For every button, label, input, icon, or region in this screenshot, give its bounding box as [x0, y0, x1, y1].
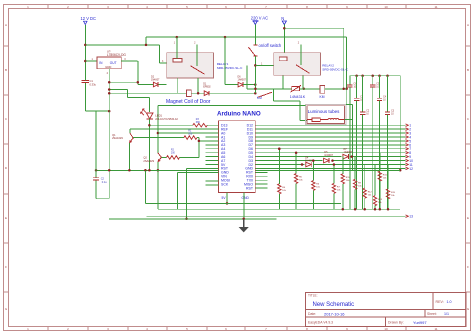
wire KM line segment 3 [325, 88, 347, 90]
wire KM line segment 2 [300, 88, 320, 90]
wire over title horizontal [158, 104, 306, 106]
resistor R4 [278, 184, 281, 194]
svg-text:12 V DC: 12 V DC [81, 16, 97, 21]
wire gnd horizontal y82.2 [109, 81, 138, 83]
wire nano right short stubs [255, 171, 267, 173]
junction cap right column bottom [399, 169, 402, 172]
wire R5 column top [295, 153, 297, 174]
wire to tubes horizontal [274, 100, 301, 102]
junction GND column at bottom rail [185, 218, 188, 221]
net flags 1-12 [406, 124, 409, 127]
relay RELAY1 coil [173, 58, 182, 62]
wire nano MOSI SCK stubs [206, 180, 219, 182]
op-amp U2 Arduino NANO body [219, 121, 256, 193]
svg-text:C2: C2 [101, 176, 105, 180]
title block drawnby divider [385, 317, 387, 326]
frame column tick marks [47, 5, 49, 9]
junction cap rail x387.5 [386, 74, 389, 77]
svg-text:on/off switch: on/off switch [259, 43, 282, 48]
wire 12V branch top [85, 44, 159, 46]
resistor R6 [312, 181, 315, 191]
svg-text:A: A [5, 23, 7, 27]
wire LED column bottom [148, 118, 150, 170]
relay RELAY2 bottom pin a [282, 75, 284, 89]
svg-text:1N4007: 1N4007 [324, 154, 333, 157]
wire KM riser [246, 65, 248, 88]
wire N vertical to KM line [343, 28, 345, 89]
junction top rail relay1 pin [176, 36, 179, 39]
capacitor C3 [385, 111, 390, 113]
relay RELAY2 body [274, 53, 321, 76]
wire D6 anode [225, 84, 238, 86]
svg-text:Sheet:: Sheet: [427, 312, 437, 316]
wire to relay2 left pin [255, 64, 273, 66]
wire R15 column top [387, 165, 389, 189]
svg-text:200: 200 [171, 152, 176, 155]
wire cap bank top rail [350, 75, 400, 77]
relay RELAY1 bottom pin b [197, 78, 199, 93]
junction diode D5 row [331, 159, 334, 162]
relay RELAY2 coil [279, 57, 287, 61]
svg-text:Yuri997: Yuri997 [413, 320, 427, 325]
wire cap C3 column top [387, 76, 389, 112]
wire Q1 base east [133, 137, 184, 139]
wire R12 column bottom [364, 198, 366, 209]
power flag 220V symbol [252, 20, 258, 22]
wire jog to nano A2 [199, 140, 219, 142]
relay RELAY2 bottom pin b [302, 75, 304, 89]
svg-text:12: 12 [409, 167, 413, 171]
junction rail170 x96.0 [95, 169, 98, 172]
junction ground at rail [242, 218, 245, 221]
relay RELAY2 top pin 2 [300, 44, 302, 65]
capacitor C5 [370, 84, 375, 86]
relay RELAY1 top pin 2 [196, 44, 198, 66]
svg-text:B: B [5, 68, 7, 72]
wire 220V below switch [254, 56, 256, 93]
wire rail left riser 96 lower [95, 180, 97, 199]
capacitor C7 [354, 97, 359, 99]
svg-text:New Schematic: New Schematic [313, 302, 355, 308]
relay RELAY1 contact blade [191, 66, 205, 75]
relay RELAY2 contact blade [296, 65, 310, 74]
wire N east branch [284, 27, 343, 29]
wire rail y170.3 left [96, 169, 219, 171]
svg-text:10: 10 [384, 5, 388, 9]
junction 220V relay2 branch [254, 64, 256, 67]
junction rail170 x145.4 [144, 169, 147, 172]
title block rev divider [432, 293, 434, 310]
wire rail y203.4 [145, 202, 341, 204]
junction A0 row at column [157, 132, 160, 135]
ground symbol [243, 219, 245, 227]
junction N wire at KM line [342, 88, 345, 91]
svg-text:2SA1029: 2SA1029 [143, 159, 154, 163]
diode D1 symbol [204, 91, 209, 96]
junction rail170 x129.4 [128, 169, 131, 172]
resistor R7 [332, 183, 335, 193]
svg-text:1N4007: 1N4007 [344, 151, 353, 154]
wire R5 column bottom [295, 184, 297, 210]
svg-text:2SA1029: 2SA1029 [112, 136, 123, 140]
wire rail y170.3 right [255, 169, 400, 171]
svg-text:11: 11 [434, 327, 437, 331]
wire cap C3 column bottom [387, 114, 389, 209]
wire D13 row west segment [149, 124, 192, 126]
junction at 137.8,82.2 [137, 81, 140, 84]
junction LED column D13 row [148, 124, 151, 127]
svg-text:14N431K: 14N431K [290, 95, 306, 99]
svg-text:Arduino NANO: Arduino NANO [217, 111, 261, 118]
wire top rail corner down [346, 37, 348, 89]
svg-text:0.1u: 0.1u [102, 180, 108, 184]
svg-text:GND: GND [242, 196, 250, 200]
svg-text:Q1: Q1 [112, 133, 116, 137]
wire D2 anode [138, 84, 154, 86]
wire top rail y37.1 [146, 36, 347, 38]
junction top rail D6 column [224, 36, 227, 39]
junction cap rail x372.7 [371, 74, 374, 77]
wire LED feed y97.6 [128, 97, 150, 99]
wire rail left riser 145.4 [144, 170, 146, 203]
switch on/off blade [248, 47, 255, 56]
wire branch to relay1 left pin [160, 62, 167, 64]
junction diode D7 row [350, 155, 353, 158]
resistor R2 [167, 156, 180, 160]
wire R1 jog vertical [198, 138, 200, 158]
junction cap rail x356.6 [355, 74, 358, 77]
wire GND column down [186, 168, 188, 218]
diode D4 symbol [306, 162, 311, 167]
wire cap C7 column top [356, 76, 358, 99]
svg-text:EPB02: EPB02 [203, 85, 211, 88]
wire branch corner down [159, 45, 161, 63]
wire rail left riser 96 upper [95, 111, 97, 178]
wire y89.5 [109, 89, 127, 91]
wire R6 column top [312, 161, 314, 181]
junction R6 top [312, 159, 315, 162]
diode D2 symbol [153, 82, 158, 87]
wire rail y209.2 [158, 208, 400, 210]
switch on/off terminal ticks [253, 44, 257, 46]
wire LED feed riser [127, 90, 129, 98]
svg-text:RST: RST [246, 186, 254, 190]
luminous tubes inner box [307, 106, 345, 124]
junction at 109.2,82.2 [108, 81, 111, 84]
wire nano 5V bottom pin [226, 193, 228, 204]
junction rail170 x109.2 [108, 169, 111, 172]
wire over title left riser upper [157, 105, 159, 152]
wire R9 column bottom [354, 189, 356, 209]
junction 12V at y61 [84, 60, 87, 63]
junction rail209 x364.7 [363, 208, 366, 211]
resistor R3 [193, 123, 208, 127]
luminous tubes outer box [306, 104, 347, 124]
power flag 12V symbol [83, 20, 88, 22]
wire Q2 base east [161, 156, 166, 158]
junction rail drop at branch [145, 44, 148, 47]
svg-text:200: 200 [188, 133, 193, 136]
wire R2 east [180, 156, 199, 158]
voltage regulator U1 body [97, 57, 121, 69]
wire 220V down to switch [254, 25, 256, 45]
svg-text:220 V AC: 220 V AC [251, 16, 268, 21]
wire C1 gap top [84, 79, 86, 81]
svg-text:680: 680 [196, 121, 201, 124]
junction rail209 x342.8 [342, 208, 345, 211]
wire OUT down [137, 61, 139, 85]
junction jog at A2 wire [198, 140, 201, 143]
wire over title left riser lower [157, 162, 159, 209]
junction R7 top [333, 163, 336, 166]
resistor R1 [184, 136, 197, 140]
junction cap rail x362.6 [361, 74, 364, 77]
wire R16 column top [379, 153, 381, 171]
wire tubes left riser [299, 101, 301, 121]
wire tubes right column [352, 105, 354, 171]
wire cap C2 column bottom [362, 114, 364, 209]
wire to regulator IN [85, 60, 97, 62]
wire R6 column bottom [312, 191, 314, 210]
wire coil right [192, 92, 205, 94]
junction 109.2,89.5 [108, 88, 111, 91]
wire R15 column bottom [387, 199, 389, 209]
wire cap C5 column bottom [372, 87, 374, 209]
wire R12 column top [364, 165, 366, 189]
wire KM line segment 1 [247, 88, 292, 90]
svg-text:204-10UYC/S530-A3: 204-10UYC/S530-A3 [155, 118, 178, 121]
svg-text:13: 13 [409, 215, 413, 219]
svg-text:1N4007: 1N4007 [238, 79, 247, 82]
svg-text:F: F [467, 265, 469, 269]
wire cap C7 column bottom [356, 100, 358, 209]
svg-text:Luminous tubes: Luminous tubes [308, 109, 341, 114]
relay RELAY1 body [167, 53, 214, 78]
transistor Q2 symbol [158, 153, 161, 158]
svg-text:C1: C1 [90, 79, 94, 83]
resistor R5 [294, 174, 297, 184]
resistor R13 [373, 196, 376, 206]
junction D1 wire at 220V [254, 92, 256, 95]
svg-text:0.33u: 0.33u [90, 83, 97, 87]
capacitor C2 [360, 111, 365, 113]
wire R4 column top [278, 149, 280, 184]
junction 109.2 y111.1 [108, 110, 111, 113]
wire R4 column bottom [278, 194, 280, 209]
junction diode D4 row [301, 163, 304, 166]
wire 12V vertical [84, 25, 86, 80]
title block row line 2 [306, 316, 467, 318]
wire nano right bus rows 1-12 [255, 124, 405, 126]
wire GND row west [187, 167, 219, 169]
svg-text:2017-10-16: 2017-10-16 [324, 311, 345, 316]
wire rail y216.2 [147, 215, 406, 217]
diode D6 symbol [238, 82, 243, 87]
title block sheet divider [424, 310, 426, 318]
wire R13 column top [374, 165, 376, 196]
title block outline [306, 293, 467, 327]
wire R16 column bottom [379, 181, 381, 209]
svg-text:11: 11 [434, 5, 437, 9]
wire R7 column top [333, 165, 335, 184]
relay RELAY1 bottom pin a [176, 78, 178, 93]
svg-text:L7806CV-DG: L7806CV-DG [107, 53, 126, 57]
wire cap bank right column [399, 76, 401, 171]
wire R13 column bottom [374, 206, 376, 210]
transistor Q1 symbol [130, 133, 133, 138]
svg-text:REV:: REV: [436, 300, 444, 304]
wire nano left pin stubs A2-RST [206, 136, 219, 138]
wire cap C2 column top [362, 76, 364, 112]
switch KM blade [258, 92, 272, 97]
resistor R16 [378, 171, 381, 181]
wire VIN column down [177, 172, 179, 209]
capacitor C2 [93, 177, 99, 179]
svg-text:LED1: LED1 [155, 113, 162, 117]
junction D6 at 220V line [254, 83, 256, 86]
svg-text:Magnet Coil of Door: Magnet Coil of Door [166, 99, 211, 105]
wire REF column down into Q1 [129, 129, 131, 133]
resistor R15 [386, 189, 389, 199]
wire R9 column top [354, 157, 356, 180]
wire REF row west [130, 128, 219, 130]
wire into tubes box [300, 119, 307, 121]
resistor R9 [353, 179, 356, 189]
relay coil KM [320, 86, 325, 94]
wire D1 cathode to 220V line [209, 92, 255, 94]
magnet coil component [187, 90, 192, 96]
junction 109.2 y93.2 [108, 92, 111, 95]
wire y111.1 horizontal [85, 110, 109, 112]
svg-text:TITLE:: TITLE: [308, 294, 318, 298]
wire R11 column bottom [342, 184, 344, 209]
wire regulator OUT [121, 60, 137, 62]
wire D6 column [224, 37, 226, 85]
wire R1 east jog [197, 137, 199, 139]
wire cap C5 column top [372, 76, 374, 85]
wire D2 cathode [158, 84, 166, 86]
wire cap C6 column top [349, 76, 351, 85]
wire D6 cathode [243, 84, 255, 86]
junction N branch [283, 27, 286, 30]
wire R7 column bottom [333, 193, 335, 209]
wire nano GND bottom pin [243, 193, 245, 219]
power flag N symbol [282, 21, 286, 25]
junction coil node [197, 92, 200, 95]
varistor 14N431K symbol [292, 87, 300, 91]
wire cap C4 column bottom [379, 100, 381, 209]
svg-text:SCK: SCK [221, 182, 229, 186]
resistor R11 [341, 174, 344, 184]
svg-text:KM: KM [320, 95, 325, 99]
wire A0 row west [158, 132, 219, 134]
svg-text:1.0: 1.0 [447, 300, 452, 304]
svg-text:10: 10 [384, 327, 388, 331]
svg-text:EasyEDA V4.9.3: EasyEDA V4.9.3 [308, 321, 333, 325]
svg-text:GND: GND [105, 65, 111, 69]
wire VIN row west [178, 171, 219, 173]
wire tubes right exit [345, 119, 353, 121]
junction rail209 x379.8 [379, 208, 382, 211]
wire C2 jog [96, 198, 109, 200]
luminous tubes lamp element [307, 119, 312, 121]
wire regulator GND pin long column [108, 69, 110, 199]
diode D5 symbol [324, 158, 329, 163]
junction KM switch left [254, 88, 257, 91]
svg-text:N: N [281, 16, 284, 21]
wire Q1 emitter column down [128, 143, 130, 170]
resistor R12 [363, 188, 366, 198]
junction rail at KM line [345, 88, 348, 91]
junction relay2 pin at KM line [303, 88, 306, 91]
junction rail209 x388.0 [387, 208, 390, 211]
title block row line 1 [306, 309, 467, 311]
relay RELAY1 top pin 1 [176, 37, 178, 58]
net flag 13 arrow [406, 215, 409, 218]
wire cap C6 column bottom [349, 87, 351, 209]
luminous tubes inductor element [328, 118, 331, 119]
junction rail209 x355.1 [354, 208, 357, 211]
svg-text:Date:: Date: [308, 312, 316, 316]
junction R4 row7 [278, 148, 281, 151]
junction R5 top [295, 151, 298, 154]
wire R3 to nano D13 [207, 124, 218, 126]
svg-text:SRD-05VDC-SL-C: SRD-05VDC-SL-C [322, 68, 348, 72]
svg-text:1/1: 1/1 [444, 312, 449, 316]
wire cap C4 column top [379, 76, 381, 99]
wire 12V below C1 [84, 83, 86, 112]
svg-text:OUT: OUT [110, 61, 117, 65]
svg-text:1N4007: 1N4007 [151, 79, 160, 82]
wire N down [283, 25, 285, 53]
wire rail y218.8 [109, 218, 276, 220]
svg-text:E: E [5, 216, 7, 220]
capacitor C1 [82, 79, 90, 81]
wire KM rail lower drop [345, 89, 347, 105]
svg-text:Drawn By:: Drawn By: [388, 321, 404, 325]
svg-text:E: E [467, 216, 469, 220]
capacitor C6 [347, 84, 352, 86]
wire coil left [109, 92, 186, 94]
wire rail west drop [145, 37, 147, 45]
junction 12V at y44.9 [84, 44, 87, 47]
diode D7 symbol [343, 154, 348, 159]
capacitor C4 [377, 97, 382, 99]
svg-text:A: A [467, 23, 469, 27]
wire R11 column top [342, 157, 344, 174]
svg-text:SRD-05VDC-SL-C: SRD-05VDC-SL-C [217, 66, 243, 70]
junction 5V pin at rail [226, 202, 229, 205]
junction A0 column rail [157, 169, 160, 172]
wire LED column top [148, 98, 150, 112]
frame row tick marks [4, 45, 9, 47]
svg-text:Q2: Q2 [143, 156, 147, 160]
svg-text:B: B [467, 68, 469, 72]
junction cap rail x379.5 [378, 74, 381, 77]
wire KM rail lower jog [346, 104, 352, 106]
svg-text:F: F [5, 265, 7, 269]
junction R4 top [278, 148, 281, 151]
junction rail209 x375.0 [374, 208, 377, 211]
wire switch lower terminal down [273, 89, 275, 101]
junction rail170 x149.4 [148, 169, 151, 172]
LED1 symbol [146, 113, 153, 119]
